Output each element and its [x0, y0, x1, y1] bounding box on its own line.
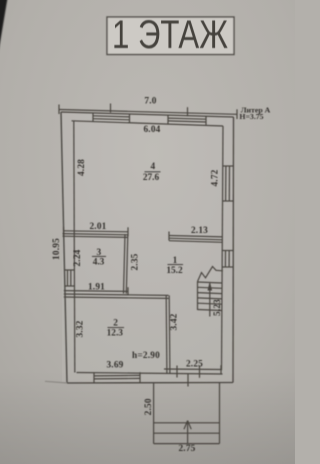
dim tick right [236, 109, 238, 119]
dimension line 2.01 [64, 231, 129, 232]
porch outline [153, 383, 155, 443]
bottom wall inner line [77, 373, 223, 375]
faint line extension bottom-left [45, 381, 67, 383]
dimension line 7.0 (top overall) [59, 110, 237, 115]
wall room3 right [124, 234, 126, 293]
door jamb tick [199, 366, 201, 378]
svg-text:h=2.90: h=2.90 [132, 351, 160, 361]
title box [107, 17, 234, 55]
svg-text:15.2: 15.2 [166, 266, 183, 276]
door axis line [187, 374, 189, 387]
svg-text:3.69: 3.69 [106, 361, 123, 371]
dim tick left [58, 105, 60, 115]
top wall outer line [61, 112, 234, 117]
dimension line 2.25 [164, 368, 221, 371]
axis tick window 1 [110, 104, 112, 113]
bottom vignette [0, 370, 295, 464]
bottom wall outer line [67, 382, 233, 385]
svg-text:2.25: 2.25 [186, 359, 203, 369]
svg-text:4.28: 4.28 [77, 159, 87, 176]
svg-text:2.13: 2.13 [191, 226, 208, 236]
window W3 left wall [67, 270, 69, 286]
svg-text:2.24: 2.24 [73, 249, 83, 266]
window W6 bottom wall [94, 374, 140, 377]
svg-text:1.91: 1.91 [88, 282, 105, 292]
right wall inner line [222, 126, 224, 370]
svg-text:4.72: 4.72 [210, 169, 220, 186]
left wall inner line [74, 121, 75, 373]
stairs flight [197, 282, 199, 311]
svg-text:4: 4 [150, 162, 155, 172]
window W2 top wall [168, 118, 206, 119]
svg-text:1 ЭТАЖ: 1 ЭТАЖ [112, 12, 228, 57]
svg-text:2.35: 2.35 [130, 253, 140, 270]
right wall outer line [232, 117, 235, 383]
dimension line 1.91 [64, 290, 128, 293]
svg-text:2.75: 2.75 [178, 444, 195, 454]
svg-text:10.95: 10.95 [52, 238, 62, 260]
porch entry arrow [187, 421, 189, 443]
svg-text:5.23: 5.23 [213, 299, 223, 316]
axis tick window 2 [187, 107, 189, 116]
svg-text:2.01: 2.01 [89, 222, 106, 232]
dark photo corner top-left [0, 0, 8, 55]
svg-text:6.04: 6.04 [143, 125, 160, 135]
porch steps [154, 422, 220, 424]
svg-text:27.6: 27.6 [143, 173, 160, 183]
wall room3 top [63, 234, 129, 235]
svg-text:2: 2 [113, 319, 118, 329]
window W1 top wall [93, 116, 130, 117]
svg-text:7.0: 7.0 [144, 96, 156, 106]
top wall inner line [72, 121, 224, 126]
stairs break zigzag [198, 267, 223, 282]
window W5 right wall at stairs [224, 251, 226, 268]
dimension line 2.13 [169, 236, 223, 237]
building interior paper [62, 113, 233, 382]
svg-text:4.3: 4.3 [93, 258, 105, 268]
svg-text:Н=3.75: Н=3.75 [239, 112, 263, 121]
svg-text:3.42: 3.42 [169, 313, 179, 330]
wall room2 top [64, 294, 169, 295]
door jamb tick [176, 366, 178, 378]
svg-text:12.3: 12.3 [107, 328, 124, 338]
svg-text:3.32: 3.32 [75, 320, 85, 337]
svg-text:2.50: 2.50 [144, 398, 154, 415]
window W4 right wall upper [225, 166, 227, 201]
wall room1 top [169, 238, 223, 240]
stairs up arrow [209, 284, 211, 317]
left wall outer line [61, 112, 67, 383]
wall room2 right [165, 295, 168, 373]
